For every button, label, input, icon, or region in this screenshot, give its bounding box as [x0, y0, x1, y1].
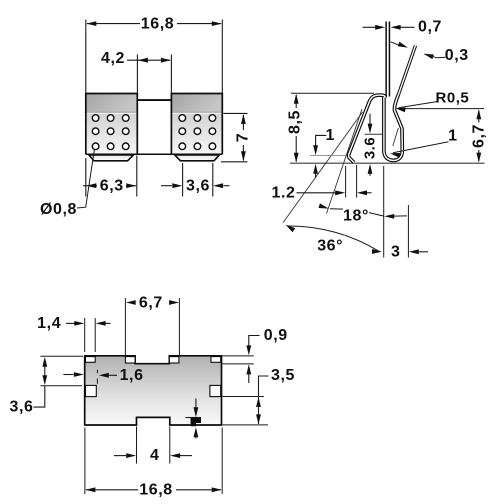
dim 0,9 extension lines [223, 355, 254, 357]
body fill [85, 356, 222, 425]
baseline of clip [290, 162, 485, 164]
dim 1 left bracket [316, 135, 327, 146]
dim 3.6 top arrow [369, 114, 371, 125]
foot top reference line [310, 155, 346, 157]
dim 0,9 leader and arrows [249, 336, 260, 348]
svg-text:R0,5: R0,5 [436, 90, 470, 107]
svg-text:0,7: 0,7 [418, 19, 442, 36]
holes right block [179, 115, 216, 150]
6,7 top extension line [400, 108, 484, 110]
dim 16,8 extension line right [221, 20, 223, 94]
dim 1,6 arrow inside with tail [99, 373, 109, 378]
svg-text:4: 4 [150, 447, 160, 464]
svg-text:3.6: 3.6 [361, 137, 378, 159]
dim 18deg arc [330, 209, 384, 216]
small arrow above blob [195, 399, 197, 409]
svg-text:16,8: 16,8 [141, 15, 175, 32]
dim 6,3 line and arrows [83, 185, 97, 187]
dim 4,2 extension lines [136, 55, 138, 94]
web line across bottom [86, 153, 223, 155]
dim 4 line and arrows [114, 455, 126, 457]
line left of metal blob [186, 417, 202, 419]
svg-text:4,2: 4,2 [101, 50, 125, 67]
right block body [171, 94, 222, 155]
metal clip end blob [191, 418, 202, 426]
svg-text:6,3: 6,3 [100, 177, 124, 194]
hole diameter leader [77, 150, 94, 208]
dim 1,4 extension lines [84, 318, 86, 352]
extension line top of clip (8,5) [291, 92, 374, 94]
slot notch top inner-right [169, 357, 179, 363]
svg-text:1: 1 [325, 127, 335, 144]
clip dome arm foot black [349, 95, 386, 162]
dim 16,8 line [87, 23, 140, 25]
svg-text:36°: 36° [317, 237, 343, 254]
svg-text:6,7: 6,7 [470, 124, 487, 148]
dim 16,8 extension line left [85, 20, 87, 94]
left block top band [86, 94, 138, 112]
right foot [175, 155, 220, 161]
svg-text:0,3: 0,3 [445, 47, 469, 64]
slot notch top-left corner [86, 357, 96, 363]
svg-text:3,5: 3,5 [271, 367, 295, 384]
svg-text:3,6: 3,6 [9, 399, 33, 416]
clip vertical loop right arm black [384, 94, 402, 161]
dim 1,4 line and arrows [66, 322, 75, 324]
construction line inside loop [393, 128, 399, 146]
right block top band [171, 94, 222, 112]
dim 6,7 line and arrows [478, 111, 480, 123]
dim 0,7 line right [400, 26, 415, 28]
clip white centerlines [387, 22, 389, 97]
dim 6,7 extension lines [124, 298, 126, 355]
svg-text:1,6: 1,6 [120, 367, 144, 384]
svg-text:16,8: 16,8 [139, 481, 173, 498]
dim 4 extension lines [136, 427, 138, 464]
dim 0,3 right arrow and leader [423, 51, 434, 59]
dim 3 extension lines [383, 166, 385, 258]
svg-text:0,9: 0,9 [264, 327, 288, 344]
svg-text:1,4: 1,4 [37, 315, 61, 332]
dim 3 right arrow [409, 249, 419, 254]
construction line 18deg through arm [327, 109, 363, 214]
dim 6,3 extension lines [85, 158, 87, 197]
R0,5 leader [399, 102, 437, 108]
clip tail strip black [385, 22, 390, 97]
dim 8,5 line and arrows [295, 95, 297, 108]
slot notch left edge [86, 385, 97, 396]
svg-text:8,5: 8,5 [287, 110, 304, 134]
dim 1.2 extension lines [345, 166, 347, 198]
hidden edge dashed line [96, 370, 98, 373]
dim 18deg text [343, 207, 369, 222]
dim 3,6 extension lines [182, 163, 184, 197]
dim 36deg text [315, 236, 345, 252]
left foot [89, 155, 134, 161]
dim 16,8 extension lines [84, 428, 86, 495]
bridge top edge between blocks [137, 99, 171, 101]
left block body [86, 94, 138, 155]
dim 3,5 leader line and arrows [259, 376, 269, 424]
svg-text:7: 7 [235, 133, 252, 143]
construction line 36deg [283, 112, 363, 223]
dim 7 extension lines [224, 112, 248, 114]
svg-text:3: 3 [391, 244, 401, 261]
left block band bottom edge [86, 111, 138, 113]
dim 16,8 line and arrows [86, 489, 138, 491]
small arrow below blob [194, 427, 199, 437]
left block outline [86, 94, 138, 155]
dim 1.2 line and arrows [297, 192, 337, 194]
dim 3,5 extension lines [223, 396, 264, 398]
svg-text:Ø0,8: Ø0,8 [40, 201, 77, 218]
holes left block [92, 115, 129, 150]
svg-text:1: 1 [448, 127, 458, 144]
slot notch top-right corner [211, 357, 221, 363]
body outline [85, 356, 222, 425]
dim 1,6 arrow outside [63, 374, 73, 376]
dim 6,7 line and arrows [133, 302, 135, 304]
svg-text:1.2: 1.2 [271, 184, 295, 201]
dim 3.6 bottom arrow [368, 164, 373, 174]
clip free end black [399, 46, 416, 94]
dim 0,7 line left [363, 26, 376, 28]
dim 7 line and arrows [242, 115, 244, 130]
dim 3,6 arrows outside [161, 185, 172, 187]
dim 4,2 line and arrows [127, 59, 170, 61]
slot notch top inner-left [125, 357, 135, 363]
svg-text:3,6: 3,6 [186, 177, 210, 194]
dim 0,3 left arrow [391, 42, 400, 45]
dim 3,6 extension lines [40, 355, 83, 357]
right block outline [171, 94, 222, 155]
right block band bottom edge [171, 111, 222, 113]
dim 36deg arc [287, 226, 380, 252]
3.6 reference line [365, 133, 386, 135]
dim 1 right leader [393, 142, 449, 153]
dim 3,6 line arrows and leader [42, 357, 47, 367]
slot notch right edge [210, 385, 221, 396]
svg-text:18°: 18° [343, 208, 369, 225]
svg-text:6,7: 6,7 [139, 295, 163, 312]
